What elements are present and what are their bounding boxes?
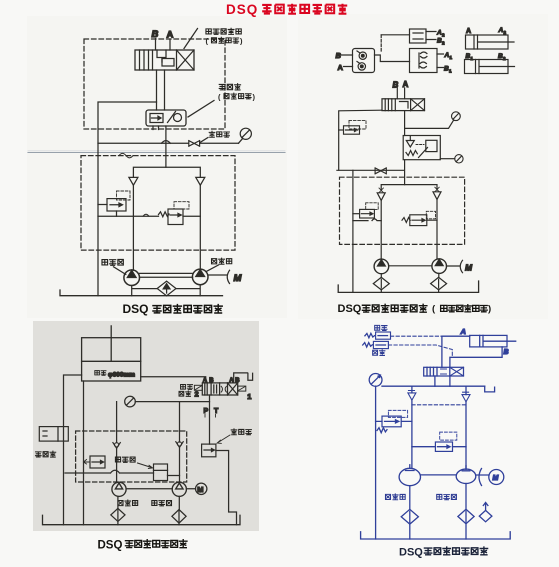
wire B side (450, 347, 502, 367)
dashed enclosure BL (76, 431, 187, 482)
svg-text:DSQ: DSQ (399, 547, 423, 559)
svg-text:DSQ: DSQ (123, 302, 149, 316)
svg-text:DSQ: DSQ (338, 303, 362, 315)
svg-text:M: M (493, 475, 499, 482)
directional valve BL (202, 383, 237, 395)
cylinder A (466, 35, 515, 49)
wires valve to proportional valve (157, 70, 165, 110)
check valve left (129, 177, 138, 185)
svg-text:1: 1 (247, 392, 251, 401)
label unloading valve (209, 131, 229, 137)
oil tank (82, 326, 141, 381)
rails to pumps TR (381, 199, 437, 259)
upper dashed enclosure (84, 39, 225, 129)
cylinder BR (470, 335, 516, 347)
wire valve to left rail (339, 110, 382, 170)
svg-text:B: B (235, 378, 240, 384)
pressure gauge TL (239, 128, 252, 143)
filter diamonds TR (373, 277, 389, 290)
page title DSQ series pump schematic (red) (226, 2, 347, 17)
collector wire with hump (65, 470, 154, 473)
proportional valve block TR (403, 136, 440, 160)
wire left branch (98, 102, 157, 296)
svg-text:P: P (204, 408, 209, 415)
scan fold line (28, 150, 285, 152)
wire P down (209, 395, 211, 444)
pump BR high pressure (456, 466, 476, 484)
svg-text:A: A (466, 28, 471, 35)
tank inscription (95, 371, 106, 376)
label return pump (36, 451, 56, 457)
svg-text:2: 2 (195, 390, 199, 399)
suction wires (132, 285, 201, 296)
svg-text:): ) (488, 304, 491, 315)
caption BR (399, 547, 488, 559)
left rail BR (375, 386, 377, 539)
leader to solenoid valve (184, 29, 198, 49)
solenoid directional valve TL (135, 50, 194, 70)
pilot dashed link (412, 404, 466, 406)
relief valve TR upper-left (339, 120, 366, 134)
valve box (154, 464, 180, 481)
check valve TR right (435, 187, 439, 192)
wire A side (442, 336, 470, 367)
svg-text:M: M (234, 273, 243, 284)
motor circle (196, 483, 207, 494)
unloading valve bowtie (189, 141, 200, 147)
centre wire down (404, 111, 406, 136)
relief valve TL-left (98, 191, 130, 216)
svg-text:M: M (197, 485, 203, 494)
gauge TR-2 (440, 155, 463, 163)
tank bottom line TL (60, 290, 223, 296)
label high pressure (375, 325, 387, 330)
directional valve BR (424, 367, 464, 376)
pump TR right (432, 259, 447, 274)
check valve BR left (411, 386, 413, 393)
main pressure line BR (382, 385, 485, 387)
motor mark TR (460, 260, 462, 272)
tank line BR (361, 532, 511, 539)
suction filter diamond (157, 281, 176, 296)
shelf wire (98, 215, 200, 217)
rails to check valves (117, 402, 180, 442)
pump TL high pressure (124, 270, 140, 286)
check valve TR left (379, 188, 383, 193)
check valve BL right (176, 442, 183, 448)
pump TR left (374, 259, 389, 274)
pump BL high (172, 482, 186, 496)
svg-text:φ600mm: φ600mm (108, 372, 135, 379)
relief valve TR inner-left (353, 203, 378, 218)
filter diamonds BR (409, 486, 411, 510)
svg-text:B: B (504, 349, 509, 356)
connector between blocks (375, 55, 410, 62)
label low pressure (373, 350, 385, 356)
motor mark M (227, 270, 229, 283)
dashed enclosure TR (340, 177, 465, 244)
tank line TR (338, 281, 478, 292)
svg-text:A: A (460, 327, 466, 336)
gauge BR (369, 374, 382, 387)
valve drops (435, 376, 450, 386)
centre feed wire (165, 126, 167, 167)
pump coupling wires (421, 474, 490, 476)
label solenoid valve (206, 28, 241, 34)
relief valve BR-2 (412, 432, 466, 451)
svg-text:A: A (338, 63, 344, 72)
pump BL low (112, 482, 126, 496)
svg-text:B: B (336, 51, 342, 60)
svg-text:DSQ: DSQ (98, 540, 123, 552)
check valve BR right (465, 386, 467, 394)
label low pressure pump (212, 258, 232, 264)
label pressure regulating valve (231, 429, 251, 435)
pump wires TR (389, 265, 460, 267)
lower dashed enclosure (81, 156, 235, 251)
wires from ports (156, 39, 171, 51)
synchronizing block (410, 49, 438, 73)
label working state 2 (181, 384, 193, 389)
caption BL (98, 540, 187, 552)
tee to check valves TR (381, 185, 437, 191)
relief valve BR-1 (376, 410, 412, 432)
label high pressure pump (102, 259, 123, 265)
solenoid hook mark (234, 373, 253, 383)
svg-text:M: M (465, 263, 473, 273)
low pressure pilot valve (363, 341, 389, 348)
high pressure pilot valve (365, 332, 391, 339)
pump BR low pressure (399, 465, 420, 486)
unloading line with gauge (98, 142, 239, 144)
caption TR (338, 303, 492, 315)
relief valve TR inner-right (402, 211, 437, 225)
twin check block (353, 49, 375, 73)
svg-text:A: A (403, 80, 409, 89)
label proportional valve (219, 84, 240, 90)
grey scan block (33, 321, 259, 531)
shelf wire TR (353, 219, 381, 221)
return pump box (39, 427, 68, 442)
drain step (485, 386, 495, 392)
check valve BL left (113, 443, 120, 449)
label safety valve (115, 457, 135, 462)
pump TL low pressure (192, 269, 208, 285)
svg-text:DSQ: DSQ (226, 2, 258, 17)
unloading line TR (337, 160, 405, 185)
left rails BL (64, 375, 84, 525)
pressure regulating valve (202, 444, 216, 457)
pilot boxes each side (194, 385, 202, 390)
svg-text:T: T (214, 408, 219, 415)
tee to check valves (133, 167, 200, 177)
pilot box A2 B2 (410, 29, 427, 43)
solenoid directional valve TR (382, 99, 425, 111)
filter diamonds BL (111, 508, 125, 521)
svg-text:B: B (209, 378, 214, 384)
wire to bottom right (216, 451, 237, 525)
motor BR (479, 469, 482, 486)
wires between pumps and motor (140, 273, 228, 277)
gauge BL (125, 396, 210, 407)
tank bottom line BL (43, 515, 241, 524)
safety valve (84, 456, 106, 468)
gauge TR-1 (405, 112, 461, 129)
unloading valve bowtie TR (375, 168, 386, 174)
check valve right (196, 177, 205, 185)
labels pumps BL (118, 500, 138, 506)
rails down to pumps (133, 185, 200, 270)
relief valve TL-right (159, 202, 190, 225)
tee drop rail (352, 170, 354, 292)
labels pumps BR (385, 494, 405, 500)
breather small diamond (483, 503, 488, 511)
wire tank to valve (141, 377, 206, 383)
proportional valve TL (146, 110, 186, 130)
pump wires BL (126, 488, 195, 490)
svg-text:A: A (203, 378, 208, 384)
cylinder B (465, 60, 515, 74)
caption TL (123, 302, 223, 316)
crossing hump (162, 141, 171, 144)
